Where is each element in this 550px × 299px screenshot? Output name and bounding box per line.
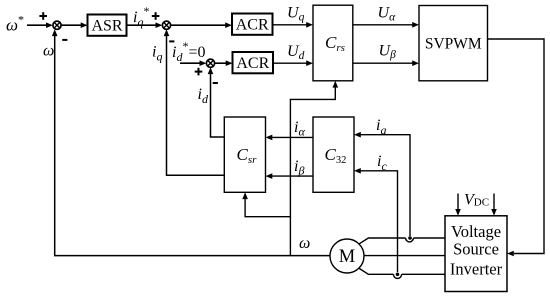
plus sign at S3 [195, 71, 203, 73]
wire Uq: ACR to Crs [273, 24, 308, 26]
Vdc arrow left [457, 194, 459, 211]
phase wire c (bottom) with sensor hop [402, 273, 445, 275]
svg-text:ACR: ACR [236, 55, 269, 72]
svg-text:Inverter: Inverter [450, 260, 503, 279]
wire rotor angle to Crs [290, 86, 335, 256]
phase wire b (middle) [365, 255, 446, 257]
wire ic sense to C32 [360, 171, 398, 272]
wire i_alpha: C32 to Csr [271, 136, 313, 138]
minus sign at S3 [213, 82, 218, 84]
summing junction S2 (iq) [162, 21, 170, 29]
wire S1 to ASR [61, 24, 81, 26]
wire S2 to ACR [171, 24, 226, 26]
plus sign at S2 [152, 15, 160, 17]
summing junction S1 (speed) [53, 21, 61, 29]
block C32 (Clarke transform) [313, 117, 354, 192]
block Crs (inverse Park transform) [313, 5, 353, 81]
svg-text:SVPWM: SVPWM [425, 36, 482, 53]
svg-text:ω: ω [43, 43, 54, 60]
minus sign at S2 [169, 40, 174, 42]
wire Ud: ACR to Crs [273, 62, 307, 64]
wire ia sense to C32 [360, 135, 410, 236]
wire omega* to S1 [27, 24, 47, 26]
summing junction S3 (id) [206, 59, 214, 67]
block ACR (d axis) [233, 52, 274, 73]
minus sign at S1 [62, 39, 67, 41]
wire Ualpha: Crs to SVPWM [353, 24, 413, 26]
wire id feedback [211, 73, 225, 137]
wire iq feedback [167, 35, 225, 175]
svg-text:ω: ω [299, 235, 310, 252]
phase wire a (top) with sensor hop [413, 237, 445, 239]
block Voltage Source Inverter [445, 216, 507, 292]
motor M [330, 239, 364, 273]
wire id*=0 to S3 [180, 62, 201, 64]
block Csr (Park transform) [224, 117, 265, 192]
block ACR (q axis) [232, 14, 273, 35]
wire SVPWM to inverter [488, 39, 545, 254]
svg-text:Source: Source [453, 240, 499, 259]
block SVPWM [419, 6, 488, 81]
svg-text:M: M [339, 247, 355, 267]
wire rotor angle to Csr [245, 198, 290, 217]
plus sign at S1 [39, 15, 47, 17]
wire ASR to S2 [127, 24, 157, 26]
wire Ubeta: Crs to SVPWM [353, 62, 413, 64]
svg-text:ACR: ACR [236, 17, 269, 34]
block ASR [88, 15, 127, 36]
wire i_beta: C32 to Csr [271, 175, 313, 177]
svg-text:ASR: ASR [91, 18, 122, 35]
svg-text:Voltage: Voltage [451, 222, 501, 241]
Vdc arrow right [493, 194, 495, 211]
wire S3 to ACR [215, 62, 227, 64]
wire speed feedback omega [55, 35, 330, 256]
